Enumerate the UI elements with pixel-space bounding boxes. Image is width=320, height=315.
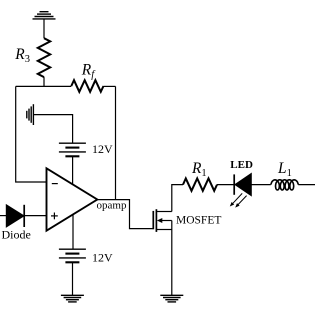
- diode D1: [0, 205, 24, 227]
- op-amp minus sign: [52, 183, 58, 185]
- svg-text:MOSFET: MOSFET: [176, 215, 221, 227]
- svg-text:12V: 12V: [92, 142, 113, 156]
- ground (bottom, MOSFET): [160, 295, 183, 302]
- wire rail (left to Rf): [16, 85, 72, 87]
- wire L1 to edge: [298, 184, 315, 186]
- wire left ground to battery: [33, 115, 72, 144]
- svg-text:opamp: opamp: [97, 200, 127, 212]
- ground (top, flipped): [33, 12, 56, 19]
- battery B1 12V (top): [59, 143, 86, 156]
- svg-text:Diode: Diode: [2, 228, 31, 242]
- wire battery B1 to op-amp top: [72, 156, 74, 185]
- wire Rf to feedback corner: [104, 85, 116, 87]
- wire top ground to R3: [43, 19, 45, 38]
- wire R1 to LED: [217, 184, 234, 186]
- svg-text:12V: 12V: [92, 250, 113, 264]
- wire MOSFET source to ground: [171, 230, 173, 296]
- svg-text:LED: LED: [230, 159, 253, 171]
- transistor Q1 MOSFET: [153, 209, 172, 232]
- wire op-amp output: [97, 200, 152, 229]
- resistor R3: [38, 38, 50, 77]
- ground (bottom left): [61, 295, 84, 302]
- wire feedback vertical: [115, 86, 117, 199]
- op-amp plus sign: [51, 213, 58, 220]
- resistor Rf: [71, 80, 103, 92]
- wire R3 to rail: [43, 77, 45, 86]
- wire MOSFET drain to rail: [172, 185, 183, 212]
- wire op-amp bottom to battery B2: [72, 215, 74, 250]
- inductor L1: [271, 180, 298, 190]
- LED arrows: [230, 193, 247, 207]
- wire left vertical (rail to minus input): [16, 86, 47, 182]
- battery B2 12V (bottom): [59, 249, 86, 262]
- op-amp U1 triangle: [47, 168, 98, 230]
- resistor R1: [183, 178, 217, 190]
- LED D2: [234, 174, 271, 196]
- wire diode to plus input: [24, 215, 46, 217]
- ground (left, rotated): [27, 104, 34, 125]
- wire battery B2 to ground: [72, 262, 74, 295]
